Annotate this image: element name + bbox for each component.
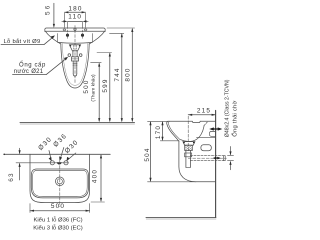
svg-text:180: 180 — [68, 5, 82, 12]
svg-text:Kiểu 3 lỗ Ø30 (EC): Kiểu 3 lỗ Ø30 (EC) — [33, 224, 82, 231]
svg-text:Kiểu 1 lỗ Ø36 (FC): Kiểu 1 lỗ Ø36 (FC) — [33, 217, 82, 224]
svg-text:400: 400 — [91, 169, 98, 183]
svg-text:170: 170 — [155, 125, 162, 139]
svg-text:nước Ø21: nước Ø21 — [14, 69, 44, 75]
svg-text:63: 63 — [8, 172, 15, 182]
svg-text:500: 500 — [83, 79, 90, 93]
svg-text:56: 56 — [44, 3, 51, 15]
svg-text:800: 800 — [124, 67, 131, 81]
svg-text:(Tham khảo): (Tham khảo) — [90, 74, 96, 102]
svg-text:Lỗ bắt vít Ø9: Lỗ bắt vít Ø9 — [4, 38, 41, 45]
svg-text:110: 110 — [68, 13, 82, 20]
svg-text:500: 500 — [51, 203, 65, 210]
svg-text:Ø30: Ø30 — [64, 139, 80, 155]
svg-text:Ống cấp: Ống cấp — [19, 62, 46, 69]
svg-text:744: 744 — [114, 67, 121, 81]
svg-text:215: 215 — [197, 108, 211, 115]
svg-text:599: 599 — [102, 78, 109, 92]
svg-text:504: 504 — [144, 147, 151, 161]
svg-text:Ø48x2.4 (Class 2-TCVN): Ø48x2.4 (Class 2-TCVN) — [224, 79, 230, 137]
svg-text:Ống thải chờ: Ống thải chờ — [231, 100, 238, 136]
